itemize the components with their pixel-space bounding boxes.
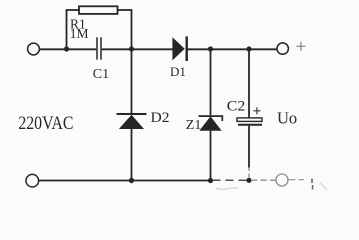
- svg-text:D2: D2: [151, 110, 170, 126]
- svg-text:Z1: Z1: [186, 118, 202, 133]
- svg-text:D1: D1: [170, 64, 186, 79]
- svg-text:Uo: Uo: [277, 108, 297, 127]
- svg-text:C2: C2: [227, 98, 246, 114]
- svg-text:C1: C1: [93, 67, 109, 82]
- svg-text:1M: 1M: [70, 26, 89, 41]
- svg-text:220VAC: 220VAC: [18, 113, 73, 134]
